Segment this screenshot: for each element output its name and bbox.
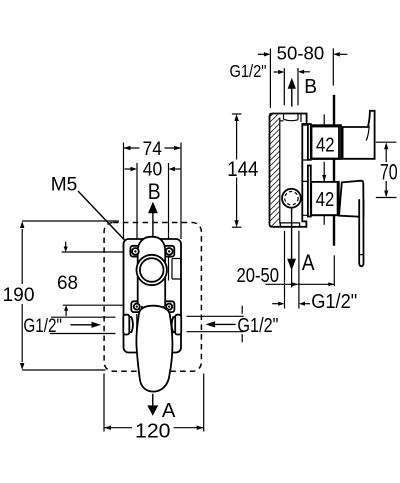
- port line bottom left: [284, 231, 286, 309]
- svg-text:68: 68: [57, 273, 78, 294]
- mounting plate front: [124, 239, 182, 353]
- screw lug bottom-right: [164, 301, 175, 312]
- extension line 74 left: [123, 143, 125, 240]
- extension line G1/2 right top: [187, 315, 244, 317]
- extension line 120 right: [203, 374, 205, 432]
- svg-text:190: 190: [3, 285, 35, 306]
- arrow G1/2 top: [274, 70, 285, 74]
- bottom recess: [280, 223, 299, 227]
- right tab lines: [172, 259, 181, 280]
- dimension 68 arrows: [57, 242, 78, 316]
- dimension 20-50: [266, 282, 335, 286]
- extension line G1/2 left top: [51, 316, 116, 318]
- fitting right edge: [167, 314, 169, 335]
- fitting left edge: [136, 314, 138, 335]
- wall line thick: [333, 95, 335, 246]
- screw bottom-right: [166, 304, 172, 310]
- escutcheon bar bottom: [308, 166, 311, 217]
- stem connector lines: [302, 125, 308, 215]
- dimension 190: [3, 221, 35, 370]
- dimension 50-80: [258, 44, 348, 64]
- port centerline below arrow A: [291, 269, 293, 288]
- arrow G1/2 right: [206, 321, 236, 327]
- port circle inner dashed: [285, 192, 298, 205]
- screw lug top-right: [164, 246, 174, 257]
- port line top left: [283, 68, 285, 105]
- arrow A side: [287, 208, 296, 271]
- svg-text:B: B: [148, 179, 161, 204]
- extension line G1/2 left bottom: [50, 333, 116, 335]
- arrow B front: [148, 202, 158, 237]
- dimension 40: [125, 160, 182, 181]
- svg-text:42: 42: [316, 133, 335, 156]
- svg-text:120: 120: [135, 419, 171, 442]
- label 42 bottom box: [311, 182, 337, 215]
- port line bottom right: [298, 231, 300, 309]
- dimension 74: [124, 139, 182, 160]
- lever handle front: [136, 306, 172, 392]
- trim ring inner: [140, 258, 164, 282]
- svg-text:40: 40: [143, 160, 163, 181]
- trim ring outer: [137, 255, 167, 285]
- extension line 50-80 right: [332, 48, 334, 85]
- arrow port top right: [298, 70, 310, 74]
- svg-text:G1/2": G1/2": [311, 291, 357, 313]
- port line top right: [297, 68, 299, 105]
- fitting left bracket: [129, 317, 133, 332]
- dimension line 42: [323, 114, 325, 224]
- extension line G1/2 right bottom: [187, 331, 244, 333]
- arrow A front: [147, 394, 158, 416]
- port circle outer: [282, 189, 301, 208]
- valve body side: [270, 114, 307, 227]
- svg-text:50-80: 50-80: [277, 44, 325, 64]
- top lip details: [280, 114, 301, 123]
- barrel right edge: [168, 255, 170, 281]
- escutcheon bell: [138, 237, 166, 306]
- fitting left cap: [123, 315, 129, 335]
- hatch flange: [270, 114, 280, 227]
- svg-text:G1/2": G1/2": [230, 61, 267, 81]
- stem bottom: [311, 182, 339, 215]
- extension line 74 right: [180, 143, 182, 240]
- extension line 68 top: [62, 251, 129, 253]
- fitting right cap: [175, 315, 181, 335]
- screw top-right: [166, 248, 173, 255]
- svg-text:B: B: [304, 76, 317, 98]
- svg-text:70: 70: [380, 160, 398, 185]
- extension line 68 bottom: [63, 304, 131, 306]
- arrow B side: [288, 78, 296, 107]
- extension line 190 top: [22, 220, 119, 222]
- arrow 42: [322, 175, 326, 181]
- svg-text:144: 144: [227, 157, 258, 181]
- arrow G1/2 left: [70, 322, 101, 328]
- fitting right bracket: [172, 317, 176, 332]
- handle top lever: [343, 111, 375, 159]
- dimension 144: [227, 114, 258, 227]
- handle bottom lever blade: [359, 199, 363, 266]
- dimension 120: [104, 419, 204, 442]
- extension line 40 right: [168, 163, 170, 245]
- label 42 top box: [312, 127, 340, 159]
- svg-text:74: 74: [143, 139, 163, 160]
- svg-text:G1/2": G1/2": [237, 315, 278, 337]
- tick G1/2 right bottom: [241, 334, 243, 342]
- extension line 50-80 left: [269, 49, 271, 109]
- extension line 40 left: [136, 163, 138, 245]
- flange inner line: [279, 118, 281, 224]
- stem top: [311, 125, 341, 159]
- svg-text:42: 42: [316, 188, 335, 211]
- handle bottom lever knuckle: [339, 181, 364, 217]
- svg-text:A: A: [302, 250, 315, 275]
- leader M5: [78, 191, 134, 250]
- dimension 70: [376, 142, 398, 197]
- wall line thin lower: [333, 255, 335, 286]
- dashed recess box: [104, 223, 201, 372]
- handle top curve: [366, 126, 369, 141]
- screw lug top-left: [130, 246, 140, 257]
- escutcheon bar top: [308, 124, 311, 160]
- arrow G1/2 bottom left: [272, 302, 284, 306]
- arrow G1/2 bottom right: [299, 302, 310, 306]
- handle blade joint line: [359, 254, 363, 256]
- tick G1/2 right top: [241, 306, 243, 314]
- screw bottom-left: [134, 304, 140, 310]
- extension line 120 left: [103, 374, 105, 432]
- extension line 190 bottom: [22, 369, 105, 371]
- svg-text:M5: M5: [51, 174, 78, 196]
- screw top-left: [132, 248, 139, 255]
- screw lug bottom-left: [131, 301, 142, 312]
